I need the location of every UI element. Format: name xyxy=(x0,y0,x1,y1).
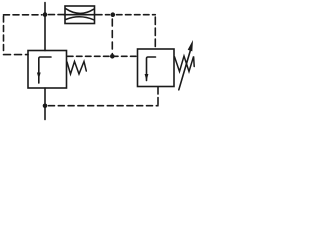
adjustment arrow across spring of V2 xyxy=(179,51,190,90)
wire: left valve bottom port xyxy=(44,88,46,106)
spring of valve V2 xyxy=(175,56,195,72)
wire: dashed pilot from node C to right corner xyxy=(117,14,156,16)
wire: dashed pilot down to right valve top port xyxy=(154,17,156,49)
wire: main line top segment xyxy=(44,3,46,15)
valve V2 internal flow arrow xyxy=(147,57,156,81)
wire: dashed pilot from node A to orifice xyxy=(49,14,65,16)
valve V2 body (relief valve, right) xyxy=(138,49,175,87)
orifice line through xyxy=(64,14,96,16)
wire: dashed drain line along bottom xyxy=(49,105,159,107)
valve V1 body (relief valve, left) xyxy=(28,51,67,89)
node D: junction dot on middle pilot line xyxy=(110,54,115,59)
wire: tank line below node B xyxy=(44,106,46,120)
wire: dashed pilot down from node C to node D xyxy=(111,19,113,54)
wire: dashed remote pilot into left valve pilot port xyxy=(4,54,29,56)
wire: left valve top port xyxy=(44,15,46,51)
valve V1 internal flow arrow xyxy=(39,57,51,83)
node A: junction dot top-left xyxy=(43,12,48,17)
wire: dashed remote pilot left branch vertical xyxy=(3,16,5,53)
wire: dashed pilot from orifice to node C xyxy=(96,14,110,16)
orifice bottom arc xyxy=(66,17,94,20)
node B: junction dot bottom xyxy=(43,104,48,109)
wire: dashed right valve bottom port xyxy=(157,87,159,105)
spring of valve V1 xyxy=(67,62,86,75)
orifice R (fixed restrictor) body xyxy=(65,6,95,24)
node C: junction dot on top pilot line xyxy=(111,12,116,17)
wire: dashed remote pilot left branch horizontal xyxy=(4,14,43,16)
wire: dashed pilot between valves (spring side of V1 to pilot port of V2) xyxy=(68,55,138,57)
orifice top arc xyxy=(66,9,94,14)
